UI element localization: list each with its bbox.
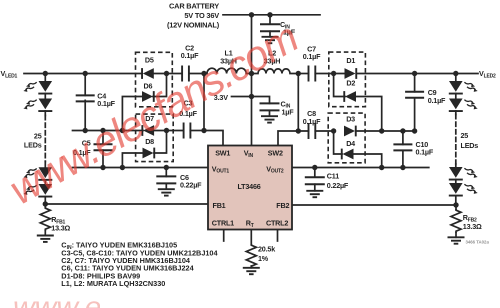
svg-text:0.1µF: 0.1µF	[428, 96, 446, 105]
svg-text:CAR BATTERY: CAR BATTERY	[169, 2, 219, 11]
svg-text:CTRL1: CTRL1	[212, 218, 234, 227]
svg-text:www.elecfans.com: www.elecfans.com	[13, 291, 261, 308]
svg-text:20.5k: 20.5k	[258, 244, 275, 253]
svg-text:13.3Ω: 13.3Ω	[51, 223, 70, 232]
svg-text:1µF: 1µF	[282, 107, 295, 116]
svg-text:LT3466: LT3466	[238, 182, 261, 191]
svg-text:FB1: FB1	[213, 201, 226, 210]
svg-text:VLED2: VLED2	[479, 69, 496, 80]
svg-text:1%: 1%	[258, 254, 269, 263]
svg-text:VLED1: VLED1	[1, 69, 18, 80]
svg-text:0.22µF: 0.22µF	[327, 181, 349, 190]
svg-text:D4: D4	[346, 139, 355, 148]
svg-text:FB2: FB2	[276, 201, 289, 210]
svg-text:0.1µF: 0.1µF	[97, 99, 115, 108]
svg-text:5V TO 36V: 5V TO 36V	[184, 11, 219, 20]
svg-text:C11: C11	[327, 171, 339, 180]
svg-text:D2: D2	[346, 78, 355, 87]
svg-text:0.22µF: 0.22µF	[180, 180, 202, 189]
svg-text:SW1: SW1	[215, 148, 230, 157]
svg-text:LEDs: LEDs	[24, 141, 42, 150]
svg-text:0.1µF: 0.1µF	[303, 52, 321, 61]
svg-text:LEDs: LEDs	[461, 141, 479, 150]
svg-text:D5: D5	[145, 55, 154, 64]
svg-text:L1, L2: MURATA LQH32CN330: L1, L2: MURATA LQH32CN330	[61, 279, 165, 288]
svg-text:D1: D1	[346, 56, 355, 65]
svg-text:D3: D3	[346, 115, 355, 124]
svg-text:SW2: SW2	[268, 148, 283, 157]
svg-text:0.1µF: 0.1µF	[416, 147, 434, 156]
svg-text:25: 25	[461, 131, 469, 140]
svg-text:(12V NOMINAL): (12V NOMINAL)	[167, 21, 220, 30]
svg-text:0.1µF: 0.1µF	[181, 51, 199, 60]
svg-text:CTRL2: CTRL2	[266, 218, 288, 227]
svg-text:13.3Ω: 13.3Ω	[463, 222, 482, 231]
svg-text:0.1µF: 0.1µF	[303, 117, 321, 126]
svg-text:25: 25	[34, 131, 42, 140]
svg-text:3466 TA02a: 3466 TA02a	[466, 239, 490, 244]
